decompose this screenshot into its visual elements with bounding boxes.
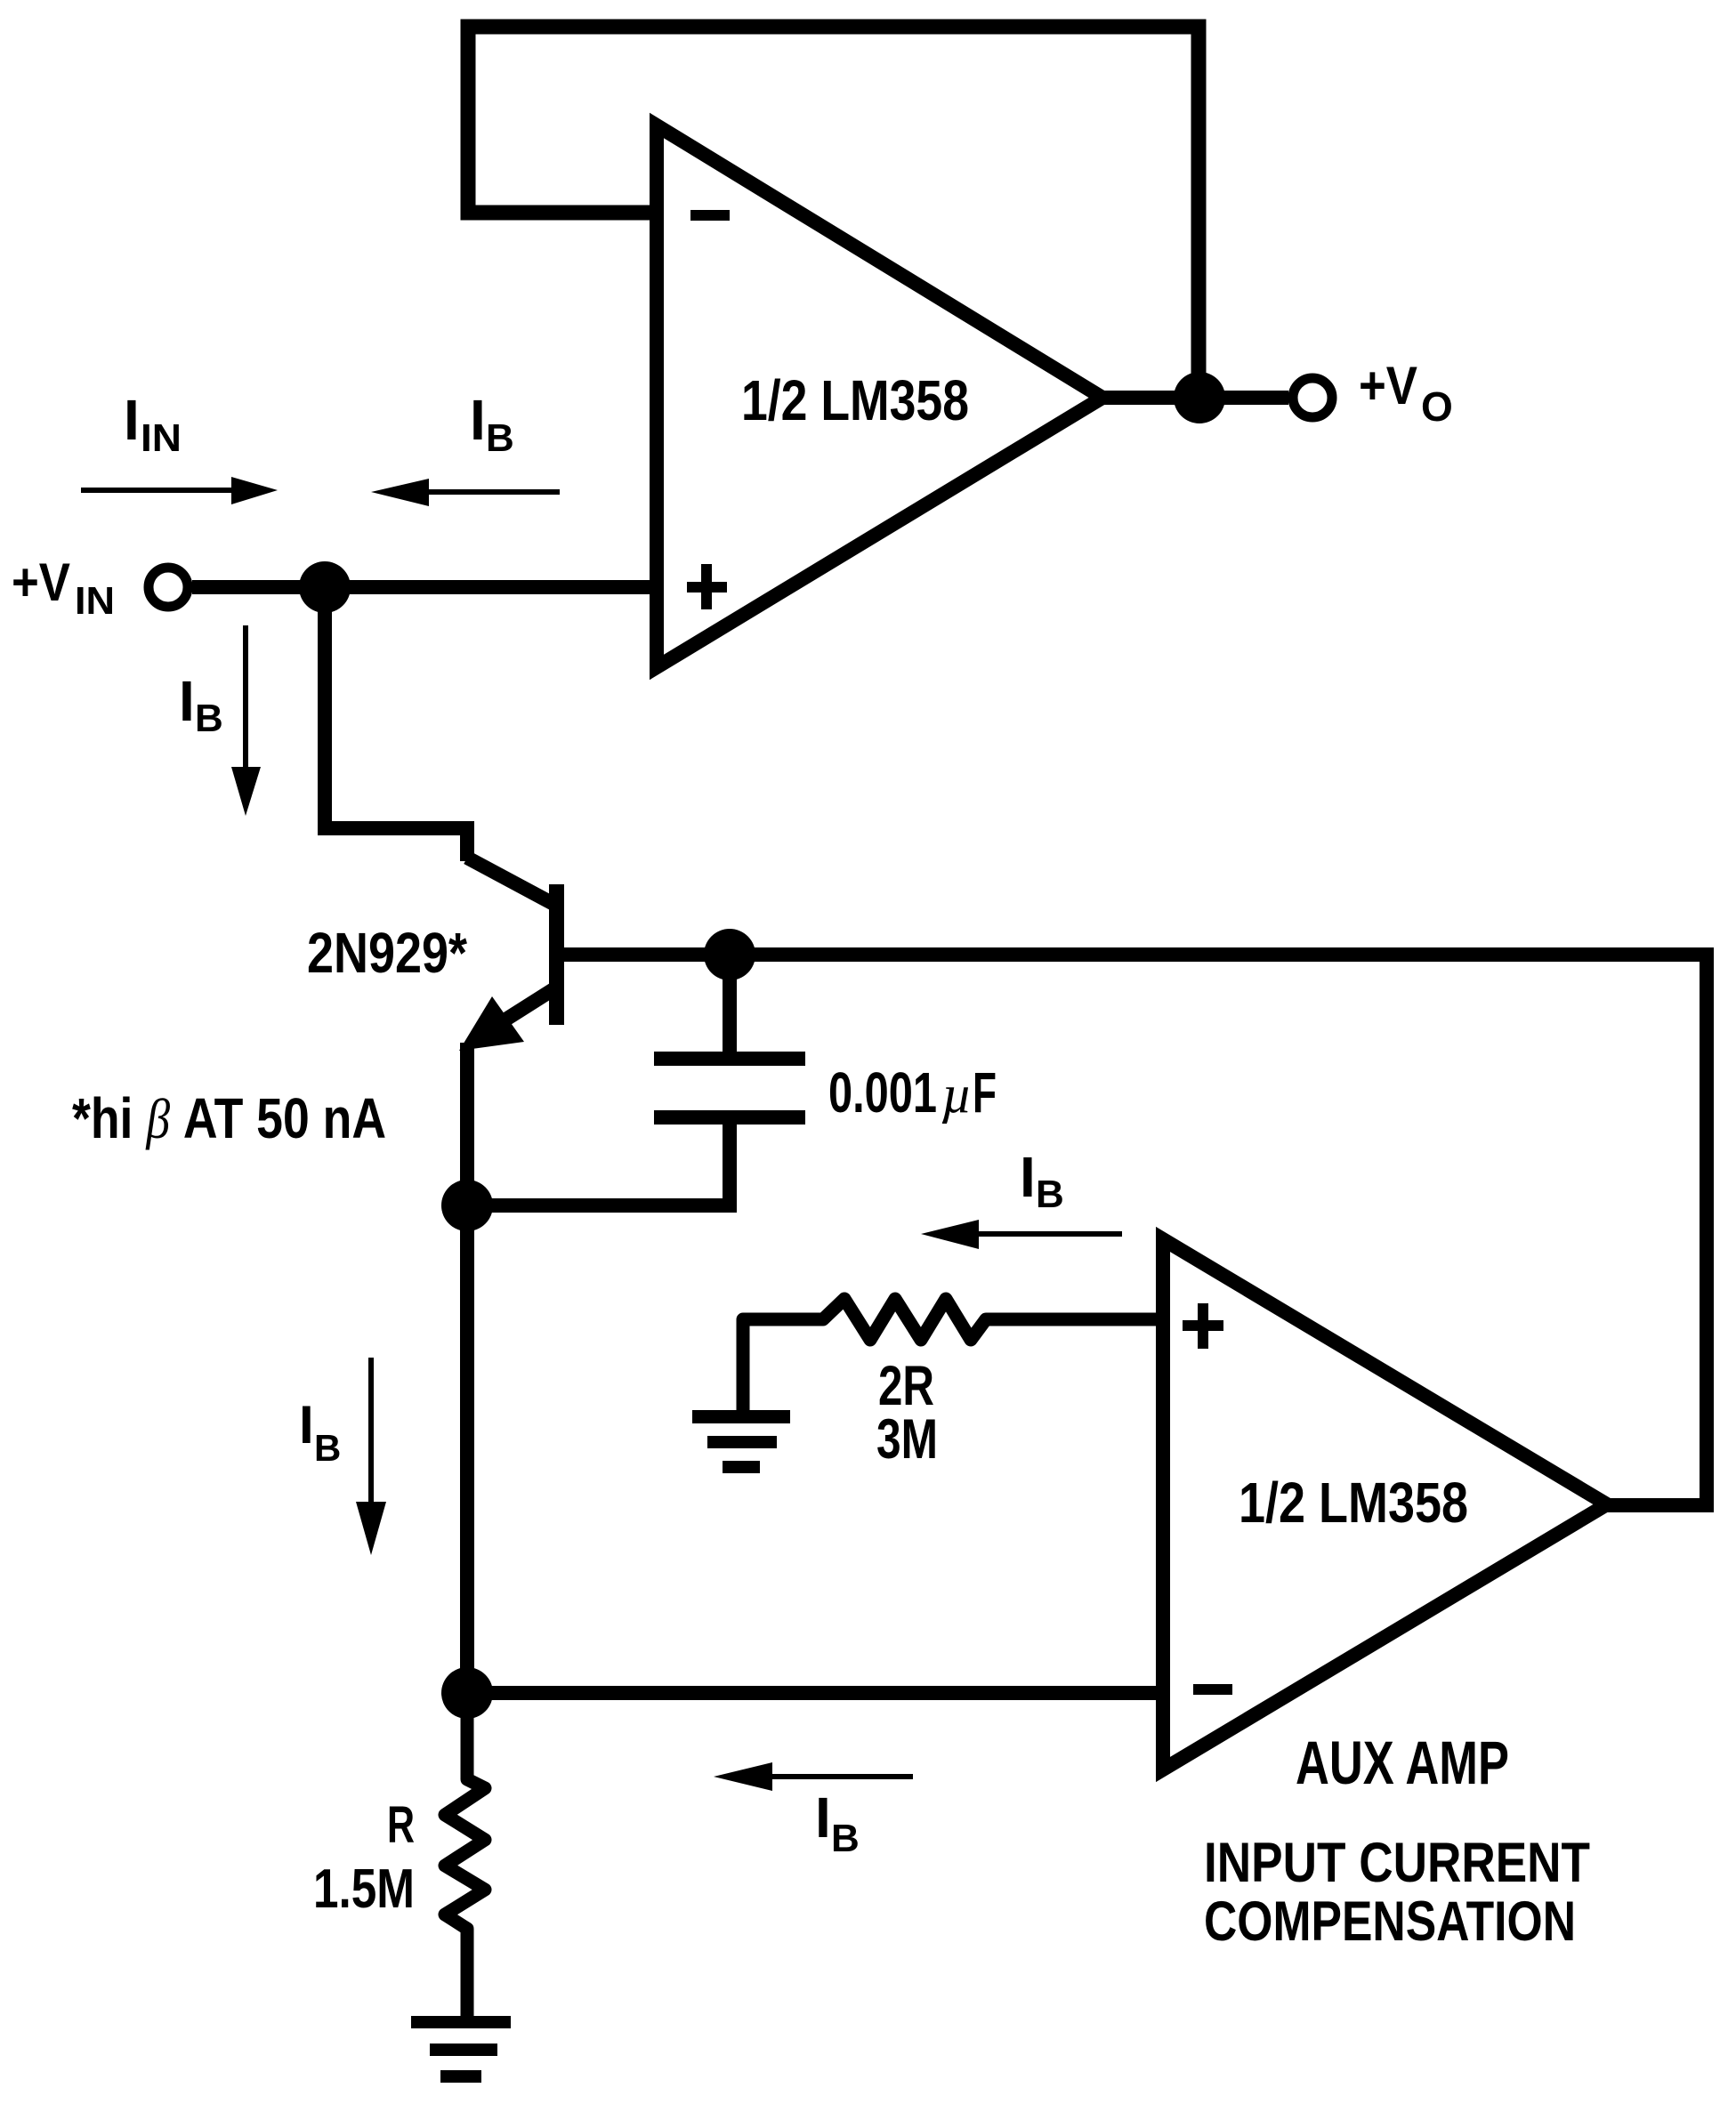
svg-text:I: I <box>470 388 486 452</box>
wire feedback loop of U1 (output to inverting input) <box>468 27 1199 398</box>
svg-text:I: I <box>815 1786 831 1850</box>
svg-text:I: I <box>124 388 140 452</box>
svg-text:+V: +V <box>1359 356 1417 415</box>
svg-text:B: B <box>1036 1173 1064 1216</box>
svg-text:B: B <box>195 697 223 740</box>
svg-text:1.5M: 1.5M <box>313 1858 415 1920</box>
label +VIN <box>12 552 115 623</box>
svg-text:+V: +V <box>12 552 70 612</box>
node inverting input junction <box>441 1667 493 1719</box>
label IIN <box>124 388 182 460</box>
svg-text:2N929*: 2N929* <box>307 921 467 985</box>
wire emitter node down to inverting node <box>460 1205 474 1693</box>
svg-text:IN: IN <box>141 416 182 460</box>
resistor R1 R 1.5M (vertical zigzag) <box>445 1693 485 2019</box>
svg-text:F: F <box>973 1060 997 1125</box>
wire U1 output to +VO terminal <box>1102 391 1288 405</box>
svg-text:I: I <box>299 1395 314 1455</box>
svg-text:O: O <box>1421 383 1453 430</box>
wire collector node down to C1 top plate <box>723 955 737 1053</box>
transistor Q1 2N929 <box>459 858 564 1210</box>
wire +VIN terminal to U1 non-inverting input <box>192 580 657 594</box>
svg-text:0.001: 0.001 <box>828 1060 937 1125</box>
label IB (above U2 non-inverting input) <box>1020 1145 1064 1216</box>
U1 non-inverting input marker <box>687 564 727 609</box>
svg-text:B: B <box>486 416 514 460</box>
label 0.001uF (C1) <box>828 1060 997 1125</box>
svg-text:R: R <box>387 1796 415 1854</box>
svg-text:I: I <box>1020 1145 1036 1209</box>
svg-text:3M: 3M <box>876 1408 938 1471</box>
label +VO <box>1359 356 1453 430</box>
op-amp U1 triangle <box>657 125 1102 667</box>
current arrow IB (pointing down, left middle) <box>356 1358 386 1555</box>
label IB (below input node) <box>179 669 223 740</box>
svg-text:B: B <box>831 1817 860 1860</box>
resistor R2 2R 3M (horizontal zigzag) <box>743 1299 1163 1416</box>
svg-text:µ: µ <box>941 1065 973 1124</box>
capacitor C1 0.001uF <box>654 1052 805 1125</box>
ground below R2 <box>692 1410 790 1473</box>
terminal +VO <box>1293 378 1332 417</box>
wire C1 bottom plate down and left to emitter node <box>468 1123 730 1205</box>
svg-text:*hi β AT 50 nA: *hi β AT 50 nA <box>72 1086 386 1150</box>
svg-text:1/2 LM358: 1/2 LM358 <box>741 368 969 432</box>
U1 inverting input marker <box>690 210 730 221</box>
U2 non-inverting input marker <box>1183 1303 1223 1349</box>
current arrow IB (pointing left, bottom) <box>714 1762 913 1791</box>
node output junction <box>1174 372 1225 423</box>
svg-text:B: B <box>314 1427 341 1469</box>
svg-text:INPUT CURRENT: INPUT CURRENT <box>1204 1832 1590 1894</box>
svg-text:COMPENSATION: COMPENSATION <box>1204 1890 1576 1953</box>
svg-text:AUX AMP: AUX AMP <box>1296 1729 1509 1797</box>
U2 inverting input marker <box>1193 1684 1232 1695</box>
node collector junction <box>704 929 755 980</box>
svg-text:IN: IN <box>75 579 115 623</box>
current arrow IB (pointing left, above U2) <box>921 1220 1122 1249</box>
label IB (bottom) <box>815 1786 860 1860</box>
wire input node down to Q1 base <box>325 587 467 861</box>
label IB (top, base current of U1) <box>470 388 514 460</box>
op-amp U2 triangle (AUX AMP) <box>1163 1239 1607 1769</box>
svg-text:1/2 LM358: 1/2 LM358 <box>1239 1471 1468 1535</box>
svg-text:I: I <box>179 669 195 733</box>
ground below R1 <box>411 2016 511 2083</box>
current arrow IIN (pointing right) <box>81 477 278 504</box>
wire inverting node to U2 inverting input <box>467 1686 1163 1700</box>
terminal +VIN <box>149 568 188 607</box>
current arrow IB (pointing left, top) <box>371 479 560 506</box>
label IB (left middle) <box>299 1395 341 1469</box>
node emitter junction <box>441 1180 493 1231</box>
wire Q1 collector to U2 output (long loop right) <box>556 955 1707 1505</box>
node input junction <box>299 561 351 613</box>
current arrow IB (pointing down, below input node) <box>231 625 261 816</box>
